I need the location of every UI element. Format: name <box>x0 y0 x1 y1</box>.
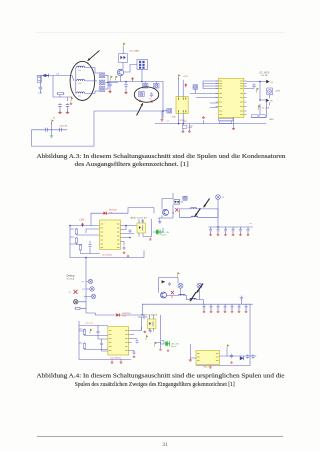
svg-text:USB: USB <box>276 91 281 93</box>
annotation arrow 2 <box>137 103 143 115</box>
ground GND1 <box>58 111 61 114</box>
wire U7 nets <box>196 304 256 365</box>
IC U3 <box>100 220 121 250</box>
annotation arrow 6 <box>190 292 196 301</box>
annotation arrow 5 <box>197 283 203 292</box>
junction <box>162 110 164 112</box>
wire <box>233 118 235 128</box>
fuse F3 <box>99 87 105 92</box>
DNP mark (red X) 3 <box>171 291 174 294</box>
capacitor C12 <box>123 246 126 250</box>
svg-text:+HV_RAW: +HV_RAW <box>129 50 140 53</box>
label box GND <box>182 125 187 128</box>
footer rule <box>37 435 283 438</box>
ground GND10 <box>123 251 126 253</box>
capacitor C4b (series) <box>60 128 62 132</box>
wire LED <box>153 228 163 232</box>
ground GNDC1 <box>203 311 206 313</box>
capacitor C6 <box>124 83 127 88</box>
wire lower rail <box>79 321 131 359</box>
testpoint TP2 <box>88 279 92 283</box>
capacitor C11 <box>88 243 91 247</box>
net flag NF10 <box>146 335 148 340</box>
wire C11 <box>86 229 100 254</box>
optocoupler U6 <box>147 319 156 328</box>
wire gnd stubs <box>60 108 68 112</box>
wire flag stub <box>51 122 53 130</box>
resistor R9 <box>161 341 164 344</box>
wire C5 <box>109 82 111 91</box>
svg-text:Debug: Debug <box>67 274 75 278</box>
capacitor CC5 <box>231 305 234 309</box>
ground GND24 <box>202 116 205 118</box>
inductor L3 <box>77 92 85 93</box>
svg-text:Q5: Q5 <box>172 212 175 214</box>
wire cap stub b <box>245 304 247 310</box>
junction <box>125 81 127 83</box>
capacitor C21 <box>230 354 233 358</box>
net flag NF3 <box>111 76 113 81</box>
wire C15 <box>98 326 108 340</box>
wire inductor nets <box>180 209 219 217</box>
optocoupler U4 <box>137 223 146 233</box>
wire C6 <box>125 82 127 92</box>
wire cap stub <box>217 227 219 234</box>
svg-text:230V AC: 230V AC <box>60 124 69 127</box>
ground GNDC5 <box>231 311 234 313</box>
ground GNDC2 <box>210 311 213 313</box>
svg-text:X1: X1 <box>69 292 71 294</box>
fuse F8 <box>183 196 187 200</box>
annotation ellipse (Kondensatoren) <box>134 87 158 102</box>
wire cap stub <box>247 227 249 234</box>
earth ground GNDE3 <box>240 296 244 300</box>
diode D12b <box>240 356 244 360</box>
wire gnd stub <box>203 120 205 123</box>
wire U2 left lower <box>196 98 218 108</box>
test jack TP5 <box>74 300 78 304</box>
ground GND13 <box>111 361 114 363</box>
net flag NF8 <box>258 105 260 110</box>
wire opto right <box>151 219 153 237</box>
transistor Q2 <box>174 200 180 205</box>
svg-text:L1a: L1a <box>78 70 81 72</box>
wire cap stub b <box>231 304 233 310</box>
LED D10 <box>165 341 169 347</box>
wire main net <box>108 81 163 83</box>
wire AC row <box>32 129 67 131</box>
net flag NF6 <box>178 74 180 79</box>
svg-text:R5: R5 <box>191 126 193 128</box>
IC U1 <box>176 97 188 114</box>
svg-text:Spulen des zusätzlichen Zweige: Spulen des zusätzlichen Zweiges des Eing… <box>75 381 235 388</box>
net flag NF11 <box>155 342 157 347</box>
wire <box>122 63 124 70</box>
wire fuse links <box>95 73 118 91</box>
svg-text:5V_USB: 5V_USB <box>262 108 270 110</box>
connector J2 <box>267 88 273 95</box>
svg-text:P1: P1 <box>82 281 84 283</box>
transistor Q6 <box>161 292 167 298</box>
svg-text:Abbildung A.3: In diesem Schal: Abbildung A.3: In diesem Schaltungsausch… <box>37 154 286 160</box>
wire cluster rail <box>159 278 179 293</box>
junction node IN <box>43 75 45 77</box>
wire L2 out <box>85 80 97 82</box>
transistor Q3 <box>163 209 169 215</box>
svg-text:C7: C7 <box>167 121 169 123</box>
resistor R5 <box>79 244 81 251</box>
wire coil bus <box>75 68 77 94</box>
wire gnd stub <box>51 130 53 134</box>
wire inductors b <box>172 296 204 305</box>
wire C16 <box>102 339 108 351</box>
svg-text:DC JACK: DC JACK <box>260 72 270 75</box>
connector P1 <box>137 60 148 70</box>
figure A.4 schematic upper section <box>69 193 252 258</box>
svg-text:31: 31 <box>162 442 168 448</box>
ground GND3 <box>70 102 73 104</box>
capacitor C1 <box>39 86 42 91</box>
svg-text:L1b: L1b <box>78 83 81 85</box>
wire cap stub b <box>203 304 205 310</box>
inductor L2 <box>77 79 85 81</box>
wire to lower row <box>53 76 72 98</box>
annotation arrow 4 <box>195 208 200 216</box>
wire U3 right <box>121 226 138 246</box>
ground GND21 <box>230 361 233 363</box>
wire cap bus A4b <box>142 303 252 305</box>
relay K2 <box>197 283 202 288</box>
wire gnd stubs b <box>112 359 121 360</box>
wire below bus <box>183 124 190 131</box>
wire U1 top <box>179 78 184 97</box>
wire cap bus A4a <box>209 226 253 228</box>
wire debug rail <box>86 258 96 316</box>
wire U7 left <box>190 344 196 358</box>
inductor L7 <box>179 294 185 295</box>
capacitor CC7 <box>245 305 248 309</box>
label boxes right <box>252 115 266 118</box>
wire opto b <box>149 315 154 331</box>
wire jack links <box>78 302 86 309</box>
inductor L1 <box>77 66 85 68</box>
wire L3 out <box>85 91 95 93</box>
wire <box>159 218 161 220</box>
capacitor C17 <box>133 351 136 355</box>
diode D9 <box>115 313 121 316</box>
wire cap stub b <box>217 304 219 310</box>
IC U2 <box>218 78 244 117</box>
ground GND12 <box>149 238 152 240</box>
transistor Q1 <box>117 69 123 75</box>
capacitor C22 <box>246 354 249 358</box>
ground GNDC6 <box>238 311 241 313</box>
capacitor C19 <box>149 329 152 333</box>
wire C1 stubs <box>40 76 42 94</box>
ground GND2 <box>66 111 69 114</box>
fuse F7 <box>193 85 198 89</box>
capacitor CC1 <box>203 305 206 309</box>
wire bus step <box>32 82 163 147</box>
ground GNDC4 <box>224 311 227 313</box>
testpoint TP4 <box>91 294 95 298</box>
ground GND16 <box>143 330 146 332</box>
wire cap stub <box>240 227 242 234</box>
ground GND9 <box>232 127 235 130</box>
net flag NF12 <box>178 272 180 277</box>
annotation arrow 3 <box>204 198 210 207</box>
wire top net <box>91 208 154 226</box>
wire input net <box>37 76 74 82</box>
ground GND18 <box>167 349 170 351</box>
resistor R4 <box>75 237 77 244</box>
wire flag stub <box>226 349 228 356</box>
wire cluster <box>167 288 200 299</box>
ground GND6 <box>139 99 142 101</box>
svg-text:Status: Status <box>171 345 177 348</box>
wire left edge <box>31 130 33 146</box>
svg-text:GND: GND <box>269 119 274 121</box>
fuse F6 <box>167 109 172 113</box>
fuse F4 <box>143 83 148 88</box>
inductor L6 <box>191 216 197 217</box>
wire probe down <box>217 199 219 227</box>
IC U7 <box>196 351 220 365</box>
ground GNDB2 <box>217 234 220 236</box>
ground GND20 <box>209 366 212 368</box>
wire U1 bottom <box>179 114 184 124</box>
U2 pin stubs <box>216 81 247 115</box>
wire cap stub <box>225 227 227 234</box>
power symbol VCC1 <box>131 77 134 81</box>
svg-text:MUR160: MUR160 <box>109 210 118 212</box>
wire stub <box>60 95 68 101</box>
diode D7 <box>102 211 108 214</box>
capacitor C23 <box>251 354 254 358</box>
svg-text:Abbildung A.4: In diesem Schal: Abbildung A.4: In diesem Schaltungsausch… <box>37 374 285 380</box>
annotation arrow 1 <box>88 51 100 61</box>
resistor R1 <box>57 92 65 94</box>
inductor L8 <box>190 298 196 299</box>
svg-text:TSR-1: TSR-1 <box>203 367 210 369</box>
wire fuse stubs <box>145 82 156 84</box>
capacitor C20 <box>168 282 171 286</box>
svg-text:P3: P3 <box>84 296 86 298</box>
wire D6 net <box>260 95 270 105</box>
LED D8 <box>156 229 160 235</box>
fuse F1 <box>99 73 105 78</box>
wire <box>163 110 167 112</box>
ground GNDB1 <box>209 234 212 236</box>
figure A.3 schematic <box>32 43 281 147</box>
DNP mark (red X) <box>175 208 178 212</box>
capacitor CB2 <box>217 228 220 232</box>
capacitor C8 <box>150 92 153 97</box>
ground GND22 <box>182 130 185 132</box>
svg-text:C9: C9 <box>149 99 151 101</box>
power symbol VCC2 <box>184 83 187 87</box>
wire cap stub <box>232 227 234 234</box>
relay K1 <box>178 283 183 288</box>
IC U5 <box>108 327 129 355</box>
wire L1 out <box>85 68 95 73</box>
diode D11b <box>162 280 166 283</box>
capacitor C4 (series) <box>46 128 48 132</box>
ground GND5 <box>124 91 127 94</box>
ground GNDB5 <box>239 234 242 236</box>
net flag NF7 <box>257 88 259 93</box>
testpoint TP3 <box>90 287 94 291</box>
ground GND8 <box>160 118 163 121</box>
capacitor C16 <box>100 342 103 346</box>
wire bottom bus <box>155 123 266 125</box>
wire left rail A4a <box>70 226 144 258</box>
wire earth stub <box>241 300 243 305</box>
net flag NF2 <box>52 119 54 124</box>
capacitor C13 <box>129 229 132 233</box>
wire Q cluster <box>158 193 173 218</box>
svg-text:A8 B7 C6 D5 E4: A8 B7 C6 D5 E4 <box>131 216 148 219</box>
capacitor CC4 <box>224 305 227 309</box>
fuse F2 <box>99 80 105 85</box>
wire LED b <box>156 315 164 348</box>
U2 label boxes <box>219 118 234 123</box>
capacitor CB3 <box>224 228 227 232</box>
ground GNDB4 <box>232 234 235 236</box>
capacitor CC3 <box>217 305 220 309</box>
wire to P1 <box>124 65 142 82</box>
net flag NF9 <box>90 329 92 334</box>
svg-text:UCC28C43: UCC28C43 <box>102 254 113 256</box>
ground GNDC7 <box>245 311 248 313</box>
DNP mark (red X) 2 <box>74 290 78 294</box>
ground GND14 <box>120 361 123 363</box>
wire left links <box>70 229 100 254</box>
earth ground GNDE2 <box>158 220 162 224</box>
net flag NF4 <box>116 76 118 81</box>
resistor R7 <box>83 329 85 336</box>
wire opto feed <box>138 317 147 330</box>
wire testpoint links <box>86 282 91 297</box>
junction node F <box>107 82 109 84</box>
resistor R3 <box>75 228 77 235</box>
fuse F5 <box>154 83 159 88</box>
ground GNDB6 <box>247 234 250 236</box>
wire cap stub b <box>210 304 212 310</box>
svg-text:P2: P2 <box>83 289 85 291</box>
capacitor C2 <box>58 103 61 108</box>
figure A.4 schematic lower section <box>67 257 257 369</box>
capacitor C15 <box>96 330 99 334</box>
capacitor CB5 <box>239 228 242 232</box>
power symbol VCC3 <box>81 223 84 227</box>
net flag NF5 <box>123 43 125 48</box>
capacitor CB1 <box>209 228 212 232</box>
ground GND4 <box>108 90 111 93</box>
capacitor CC6 <box>238 305 241 309</box>
ground GND11 <box>127 255 130 257</box>
svg-text:UCC28C43: UCC28C43 <box>111 357 122 359</box>
net flag NF13 <box>227 344 229 349</box>
wire U5 right <box>129 327 142 352</box>
earth ground GNDE1 <box>50 134 54 138</box>
svg-text:+15V: +15V <box>79 219 85 221</box>
wire Q1 to net <box>120 76 122 82</box>
bridge rectifier BR1 <box>119 54 128 63</box>
diode D3 <box>266 99 269 103</box>
capacitor C5 <box>108 83 111 88</box>
svg-text:R50: R50 <box>184 121 187 123</box>
connector J1 <box>37 76 41 82</box>
wire <box>122 48 124 54</box>
wire cap stub b <box>224 304 226 310</box>
wire right bottom <box>251 100 266 118</box>
svg-text:+5V 2A: +5V 2A <box>261 74 268 77</box>
wire to U2 <box>190 89 218 93</box>
diode D2 <box>266 80 269 84</box>
capacitor CB4 <box>232 228 235 232</box>
ground GNDC3 <box>217 311 220 313</box>
ground GND7 <box>151 100 154 102</box>
wire U2 left fan <box>203 81 218 89</box>
diode D1 <box>45 74 49 77</box>
ground GND17 <box>159 348 162 350</box>
wire lower links <box>79 329 108 350</box>
capacitor CC2 <box>210 305 213 309</box>
svg-text:+15V: +15V <box>183 76 189 78</box>
wire opto <box>139 220 152 237</box>
svg-text:L1c: L1c <box>78 96 81 98</box>
wire cap stub b <box>238 304 240 310</box>
wire section link <box>96 304 145 319</box>
resistor R6 <box>74 307 81 309</box>
annotation ellipse (Spulen output filter) <box>70 61 95 100</box>
wire cap stub <box>210 227 212 234</box>
capacitor C18 <box>136 339 139 343</box>
capacitor C10 <box>252 83 255 88</box>
header rule <box>37 32 285 33</box>
ground GNDB3 <box>224 234 227 236</box>
capacitor CB6 <box>247 228 250 232</box>
ground GND19 <box>189 359 192 362</box>
svg-text:+15 +15: +15 +15 <box>85 322 93 324</box>
svg-text:GND: GND <box>172 117 177 119</box>
svg-text:Q4: Q4 <box>181 202 184 204</box>
svg-text:Status: Status <box>161 233 167 236</box>
net flag NF1 <box>71 97 73 102</box>
svg-text:SCL SDA: SCL SDA <box>67 278 75 281</box>
ground GND15 <box>133 356 136 358</box>
capacitor C7 <box>138 92 144 97</box>
capacitor C14b <box>141 219 143 222</box>
resistor R8 <box>83 343 85 350</box>
capacitor C3 <box>66 103 69 108</box>
junction <box>141 81 143 83</box>
ground GND23 <box>188 130 191 132</box>
inductor L5 <box>190 208 196 209</box>
wire right section <box>247 82 266 101</box>
probe TP1 <box>216 195 221 200</box>
svg-text:des Ausgangsfilters gekennzeic: des Ausgangsfilters gekennzeichnet. [1] <box>75 161 189 168</box>
